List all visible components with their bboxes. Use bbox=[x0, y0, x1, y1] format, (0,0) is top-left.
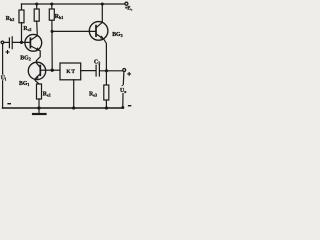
label output minus sign bbox=[128, 105, 131, 107]
node dot BG3 collector/rail bbox=[101, 2, 104, 5]
node dot on rail above Rc2 bbox=[35, 2, 38, 5]
wire input to capacitor bbox=[4, 41, 9, 43]
label output plus sign bbox=[127, 73, 131, 75]
svg-text:BG1: BG1 bbox=[19, 81, 29, 87]
wire capacitor to BG2 base bbox=[13, 41, 30, 43]
wire bottom rail bbox=[3, 107, 123, 109]
terminal +Ec bbox=[125, 2, 128, 5]
wire BG1 base to node A bbox=[41, 69, 52, 71]
resistor Re3 bbox=[104, 85, 109, 100]
label Uo dot bbox=[122, 85, 123, 86]
wire left input down-wire lower part bbox=[2, 81, 4, 108]
resistor Rb2 bbox=[21, 4, 23, 10]
node dot output junction bbox=[105, 69, 108, 72]
node A junction (Rb1/BG1 base/KT) bbox=[51, 69, 54, 72]
label input minus sign bbox=[7, 103, 11, 105]
svg-text:C3: C3 bbox=[94, 60, 100, 66]
wire node A to KT bbox=[52, 69, 60, 71]
svg-text:Rb1: Rb1 bbox=[55, 14, 64, 20]
svg-text:Uo: Uo bbox=[120, 88, 126, 94]
svg-text:Re3: Re3 bbox=[89, 91, 97, 97]
wire mid vertical Rb1 down to node A bbox=[51, 20, 53, 70]
svg-text:Rc2: Rc2 bbox=[23, 26, 31, 32]
label Ui dot bbox=[2, 74, 3, 75]
capacitor C1 input coupling bbox=[9, 37, 12, 49]
transistor BG3 bbox=[89, 22, 108, 41]
node dot KT/rail bbox=[72, 106, 75, 109]
wire KT bottom to rail bbox=[73, 80, 75, 108]
terminal output + bbox=[123, 69, 126, 72]
node junction BG3 base wire bbox=[51, 30, 54, 33]
svg-text:Ui: Ui bbox=[1, 76, 7, 82]
wire BG2 emitter to BG1 collector bbox=[36, 51, 40, 63]
wire top supply rail bbox=[22, 3, 125, 5]
wire to BG3 base bbox=[52, 30, 95, 32]
svg-text:Rb2: Rb2 bbox=[6, 16, 15, 22]
resistor Re1 bbox=[37, 84, 42, 99]
terminal input + bbox=[1, 41, 4, 44]
svg-text:BG2: BG2 bbox=[20, 55, 30, 61]
label input plus sign bbox=[6, 51, 10, 53]
wire left input down-wire upper part bbox=[2, 44, 4, 74]
node dot Re1/rail bbox=[37, 106, 40, 109]
wire BG3 collector to rail bbox=[101, 4, 103, 22]
wire KT right to C3 bbox=[81, 70, 96, 72]
svg-text:BG3: BG3 bbox=[112, 32, 122, 38]
wire BG3 emitter down to output node bbox=[104, 39, 107, 71]
wire C3 to output node bbox=[100, 70, 123, 72]
wire output port upper bbox=[122, 72, 125, 85]
crystal KT box bbox=[60, 63, 81, 80]
node dot on rail above Rb1 bbox=[50, 2, 53, 5]
svg-text:+Ec: +Ec bbox=[125, 6, 133, 11]
svg-text:Re1: Re1 bbox=[43, 91, 51, 97]
capacitor C3 bbox=[96, 65, 99, 76]
resistor Rc2 bbox=[36, 4, 38, 9]
node dot output minus/rail bbox=[121, 106, 124, 109]
resistor Rb1 bbox=[51, 4, 53, 9]
transistor BG1 (lower, mirrored) bbox=[28, 62, 45, 79]
node dot Re3/rail bbox=[105, 106, 108, 109]
node junction Rb2/base wire bbox=[20, 41, 23, 44]
transistor BG2 (upper) bbox=[25, 34, 42, 51]
wire BG1 emitter down to Re1 bbox=[35, 79, 39, 84]
wire output port lower bbox=[122, 94, 124, 108]
svg-text:KT: KT bbox=[66, 69, 75, 75]
wire output node down to Re3 bbox=[105, 71, 107, 85]
ground symbol bbox=[38, 108, 40, 113]
